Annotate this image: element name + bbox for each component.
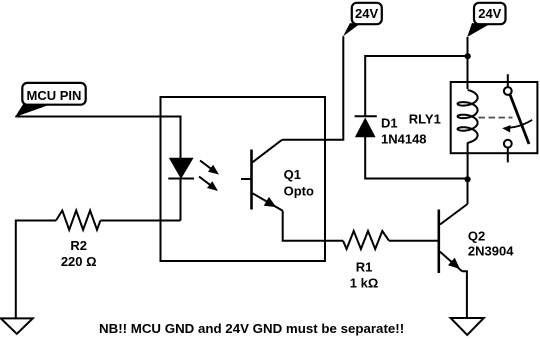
svg-text:R2: R2 <box>70 238 87 253</box>
ground (24V side) <box>451 318 484 335</box>
relay contact pin bottom <box>507 148 509 163</box>
optocoupler box Q1 <box>161 97 326 261</box>
diode D1 (flyback) <box>355 116 377 137</box>
svg-text:Opto: Opto <box>284 184 314 199</box>
wire D1 anode rail to Q2 collector node <box>365 137 467 179</box>
svg-text:24V: 24V <box>355 6 378 21</box>
svg-text:Q2: Q2 <box>468 228 485 243</box>
svg-text:RLY1: RLY1 <box>409 112 441 127</box>
relay actuation dashed link <box>479 117 513 119</box>
label 2N3904 <box>468 243 514 258</box>
label Opto <box>284 184 314 199</box>
transistor Q2 <box>439 204 468 273</box>
svg-text:24V: 24V <box>478 6 501 21</box>
svg-text:D1: D1 <box>381 116 398 131</box>
wire opto emitter to R1 <box>283 211 343 241</box>
svg-text:1 kΩ: 1 kΩ <box>350 275 379 290</box>
svg-text:220 Ω: 220 Ω <box>61 254 97 269</box>
flag 24V (opto supply) <box>343 3 382 37</box>
wire MCU PIN to LED anode <box>15 117 180 160</box>
flag 24V (relay supply) <box>467 3 505 37</box>
relay coil L1 <box>458 90 478 143</box>
LED (opto emitter diode) <box>168 158 194 178</box>
relay switch blade <box>510 95 529 144</box>
label R2 <box>70 238 87 253</box>
wire node to Q2 collector <box>467 179 469 204</box>
wire R1 to Q2 base <box>389 240 438 242</box>
resistor R2 <box>56 211 100 230</box>
relay contact pin top <box>507 74 509 87</box>
wire Q2 emitter to ground <box>462 271 467 318</box>
junction node 24V/D1 <box>465 53 471 59</box>
wire D1 cathode rail to 24V node <box>365 56 467 116</box>
flag MCU PIN <box>15 83 86 117</box>
resistor R1 <box>343 231 389 249</box>
wire LED cathode to R2 <box>100 220 180 222</box>
note text <box>99 321 404 336</box>
label 1N4148 <box>381 131 427 146</box>
wire 24V to relay coil <box>467 37 469 89</box>
svg-text:NB!! MCU GND and 24V GND must: NB!! MCU GND and 24V GND must be separat… <box>99 321 404 336</box>
label 220 ohm <box>61 254 97 269</box>
relay RLY1 box <box>451 82 538 153</box>
svg-text:Q1: Q1 <box>284 167 301 182</box>
relay actuation arrow <box>502 120 532 133</box>
label 1 kohm <box>350 275 379 290</box>
wire coil bottom to node <box>467 143 469 180</box>
svg-text:2N3904: 2N3904 <box>468 243 514 258</box>
svg-text:R1: R1 <box>356 259 373 274</box>
svg-text:1N4148: 1N4148 <box>381 131 427 146</box>
light arrow 2 <box>199 177 218 192</box>
relay contact terminal top <box>504 87 512 95</box>
relay contact terminal bottom <box>504 140 512 148</box>
wire R2 to ground <box>16 221 56 320</box>
label RLY1 <box>409 112 441 127</box>
light arrow 1 <box>200 161 219 175</box>
svg-text:MCU PIN: MCU PIN <box>27 88 82 103</box>
ground (MCU side) <box>1 318 33 334</box>
wire opto collector to 24V <box>282 36 343 140</box>
label R1 <box>356 259 373 274</box>
junction node relay/D1/Q2 collector <box>465 176 471 182</box>
label D1 <box>381 116 398 131</box>
label Q2 <box>468 228 485 243</box>
label Q1 <box>284 167 301 182</box>
wire LED cathode down <box>180 178 182 221</box>
phototransistor Q1 <box>241 140 283 211</box>
